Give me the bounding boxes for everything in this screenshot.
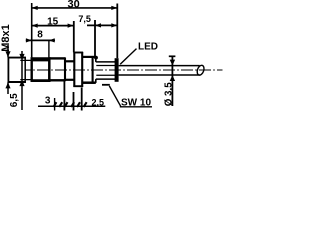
- section E: [65, 60, 74, 62]
- right face bar: [115, 58, 119, 82]
- boundary C/D: [48, 57, 51, 82]
- bottom extension lines: [54, 98, 56, 111]
- neck 6.5 edges + extension stubs: [20, 60, 32, 79]
- dim 30: [32, 3, 118, 58]
- boundary G1/G2: [92, 56, 94, 84]
- svg-text:15: 15: [47, 16, 59, 27]
- hex nut F: [73, 52, 83, 54]
- svg-text:M8x1: M8x1: [0, 24, 12, 52]
- svg-text:2,5: 2,5: [92, 98, 105, 108]
- section D: [49, 57, 65, 59]
- svg-text:3: 3: [45, 95, 51, 106]
- section G: [82, 56, 96, 58]
- svg-text:7,5: 7,5: [78, 14, 91, 24]
- svg-text:30: 30: [67, 0, 79, 10]
- centerline: [25, 69, 223, 71]
- thread section M8x1: [8, 57, 26, 83]
- bottom dim line with 3 and 2.5: [38, 105, 105, 107]
- boundary D/E: [64, 57, 66, 81]
- dim 6.5 vertical: [21, 51, 23, 110]
- dim 15: [32, 25, 74, 27]
- dim 8: [26, 39, 55, 41]
- svg-text:8: 8: [37, 30, 43, 41]
- tick marks: [53, 102, 86, 107]
- dim diameter 3.5 vertical: [171, 56, 173, 106]
- svg-text:6,5: 6,5: [9, 93, 20, 107]
- section C: [31, 57, 33, 82]
- svg-text:Ø 3,5: Ø 3,5: [164, 82, 175, 107]
- dim 7.5: [87, 24, 117, 26]
- hex SW10 section H: [95, 57, 97, 83]
- tube tip ellipse: [196, 64, 205, 76]
- svg-text:LED: LED: [138, 42, 158, 53]
- dim M8x1 vertical: [7, 45, 9, 94]
- probe tube: [119, 66, 200, 75]
